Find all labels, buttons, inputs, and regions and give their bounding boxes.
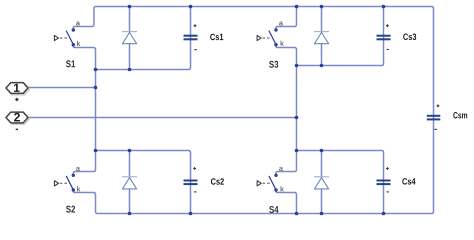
junction bottom rail at Cs2 — [189, 212, 193, 216]
junction top rail at D3 — [320, 5, 324, 9]
wire right leg: SM3 rail through port2 node to SM4 rail and S4 a-elbow — [276, 66, 297, 176]
wire SM3 bottom rail and Cs3 branch — [297, 7, 384, 66]
label S2 — [66, 206, 75, 213]
junction SM1 bottom rail at leg — [94, 68, 98, 72]
wire left leg: S1 k-wire down through port1 node to SM2 rail and S2 a-elbow — [73, 45, 95, 176]
diode D1 — [122, 32, 137, 44]
wire diode D2 branch — [129, 151, 131, 214]
junction top rail at Cs1 — [189, 5, 193, 9]
label Cs3 — [403, 34, 416, 40]
wire SM1 bottom rail and Cs1 branch — [96, 7, 191, 70]
wire S3 k-wire down to SM3 rail — [276, 45, 297, 66]
label Csm — [453, 112, 467, 118]
junction SM4 top rail at D4 — [320, 149, 324, 153]
capacitor Csm — [427, 104, 441, 130]
wire S4 k-wire down to bottom rail — [276, 190, 297, 214]
junction SM2 top rail at leg — [94, 149, 98, 153]
junction top rail at D1 — [128, 5, 132, 9]
diode D3 — [314, 32, 329, 44]
wire diode D3 branch — [321, 7, 323, 66]
junction port 2 node — [295, 116, 299, 120]
label Cs4 — [402, 178, 415, 184]
wire outer loop: S1 a-elbow, top rail, right rail, bottom rail, S2 k-wire — [73, 7, 433, 214]
junction port 1 node — [94, 86, 98, 90]
junction top rail at Cs3 — [382, 5, 386, 9]
wire port 1 to left leg — [28, 87, 96, 89]
switch S1 — [54, 22, 80, 47]
label port 1 polarity + — [15, 98, 18, 101]
junction SM2 top rail at D2 — [128, 149, 132, 153]
diode D4 — [314, 177, 329, 189]
junction bottom rail at D2 — [128, 212, 132, 216]
label S3 — [269, 61, 278, 68]
switch S3 — [257, 22, 284, 47]
label S1 — [66, 60, 75, 67]
junction bottom rail at S4 k — [295, 212, 299, 216]
junction SM4 top rail at leg — [295, 149, 299, 153]
wire S3 a-elbow to top rail — [276, 7, 297, 30]
capacitor Cs4 — [377, 167, 391, 192]
label Cs2 — [211, 178, 224, 184]
port 2 — [6, 112, 29, 124]
junction SM1 bottom rail at D1 — [128, 68, 132, 72]
switch S2 — [54, 167, 80, 192]
wire diode D1 branch — [129, 7, 131, 70]
label Cs1 — [210, 34, 223, 40]
wire SM2 top rail and Cs2 branch — [96, 151, 191, 214]
label port 2 polarity - — [16, 129, 18, 130]
junction bottom rail at Cs4 — [382, 212, 386, 216]
label S4 — [269, 206, 278, 213]
capacitor Cs3 — [377, 24, 391, 50]
junction SM3 bottom rail at D3 — [320, 64, 324, 68]
port 1 — [6, 83, 29, 95]
junction bottom rail at D4 — [320, 212, 324, 216]
capacitor Cs1 — [184, 24, 198, 50]
switch S4 — [257, 167, 284, 192]
capacitor Cs2 — [184, 167, 198, 192]
junction SM3 bottom rail at leg — [295, 64, 299, 68]
wire diode D4 branch — [321, 151, 323, 214]
wire port 2 to right leg — [28, 117, 297, 119]
wire SM4 top rail and Cs4 branch — [297, 151, 384, 214]
diode D2 — [122, 177, 137, 189]
junction top rail at S3 elbow — [295, 5, 299, 9]
